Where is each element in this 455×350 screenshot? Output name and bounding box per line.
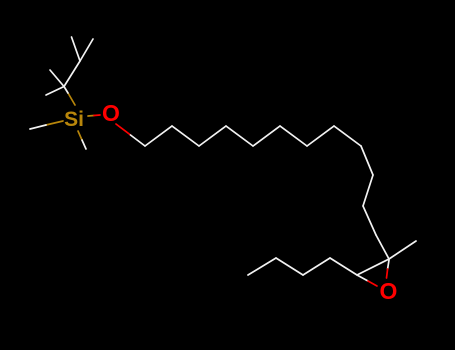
- bond Cq-CH3 upleft: [50, 70, 64, 87]
- bond B3-B4: [248, 258, 276, 275]
- silicon bonds (gold halves): [46, 93, 94, 140]
- bond Si-CH3 left gold part: [46, 121, 63, 125]
- bond Si-CH3 left white part: [30, 125, 46, 129]
- bond CH-CH3 upleft: [72, 37, 81, 61]
- bond Si-O red part: [94, 114, 100, 117]
- svg-text:O: O: [102, 100, 120, 126]
- bond C1-B1: [330, 258, 357, 275]
- bond A4-A5: [226, 126, 253, 146]
- bond Si-CH3 down gold part: [78, 131, 82, 140]
- bond B1-B2: [303, 258, 330, 275]
- bond Cq-CH (isopropyl): [64, 61, 80, 87]
- bond A8-A9: [334, 126, 361, 146]
- bond A1-A2: [145, 126, 172, 146]
- thexyl quaternary carbon cluster: [46, 37, 93, 95]
- bond A7-A8: [307, 126, 334, 146]
- tail chain zigzag: [248, 258, 357, 275]
- bond Si-Cq white part: [64, 87, 68, 94]
- bond O-A1 white part: [131, 135, 146, 146]
- bond B2-B3: [276, 258, 303, 275]
- bond Si-CH3 down white part: [82, 140, 86, 149]
- bond C1-O2 white part: [357, 275, 368, 281]
- svg-text:Si: Si: [64, 108, 84, 131]
- bond C2-C1 epoxide edge: [357, 259, 389, 275]
- bond X1-X2 descent: [363, 175, 373, 206]
- bond CH-CH3 upright: [80, 39, 93, 61]
- bond A6-A7: [280, 126, 307, 146]
- bond A3-A4: [199, 126, 226, 146]
- bond Cq-CH3 left: [46, 87, 64, 96]
- bond C2-O2 white part: [388, 260, 389, 269]
- bond X3-C2 into epoxide: [376, 235, 389, 259]
- main chain zigzag: [145, 126, 389, 259]
- svg-text:O: O: [380, 278, 398, 304]
- bond X2-X3 descent: [363, 206, 376, 235]
- bond Si-O gold part: [88, 115, 94, 118]
- bond Si-Cq gold part: [68, 93, 75, 105]
- bond C2-O2 red part: [387, 269, 388, 278]
- bond A9-X1 descent: [361, 146, 373, 175]
- bond A5-A6: [253, 126, 280, 146]
- bond O-A1 red part: [116, 124, 131, 135]
- bond C2-methyl: [389, 241, 416, 259]
- epoxide ring: [357, 241, 416, 281]
- bond C1-O2 red part: [368, 281, 377, 286]
- bond A2-A3: [172, 126, 199, 146]
